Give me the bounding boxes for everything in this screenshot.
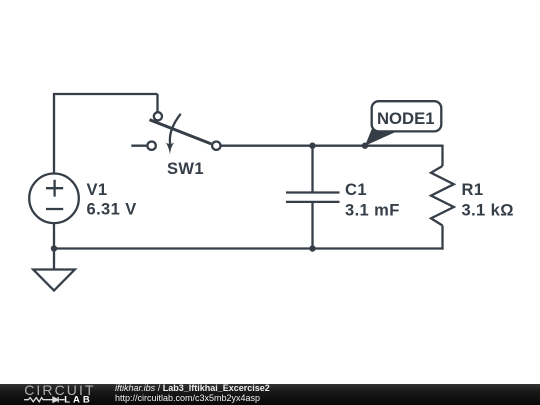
wire top rail <box>53 93 158 95</box>
svg-text:C1: C1 <box>345 181 367 199</box>
wire middle rail (switch to C1 node) <box>220 145 313 147</box>
svg-text:SW1: SW1 <box>167 160 204 178</box>
resistor R1 <box>431 166 454 226</box>
footer credit text <box>115 384 270 403</box>
svg-text:6.31 V: 6.31 V <box>87 201 137 219</box>
wire switch top stub <box>156 94 158 112</box>
wire V1 top lead <box>53 94 55 174</box>
wire R1 bottom lead <box>441 226 443 250</box>
switch SW1 <box>131 112 220 154</box>
svg-text:V1: V1 <box>87 181 108 199</box>
node NODE1 callout box <box>372 101 442 131</box>
wire ground stub <box>53 249 55 270</box>
wire C1 bottom lead <box>311 202 313 249</box>
wire C1 top lead <box>311 146 313 193</box>
svg-text:3.1 kΩ: 3.1 kΩ <box>462 202 514 220</box>
svg-text:NODE1: NODE1 <box>377 109 435 128</box>
ground <box>33 270 75 291</box>
node junction dot C1 bottom <box>309 245 315 251</box>
wire bottom rail (right) <box>313 247 444 249</box>
wire middle rail (C1 node to NODE1 dot) <box>313 145 366 147</box>
footer bar <box>0 384 540 405</box>
capacitor C1 <box>286 193 340 202</box>
node junction dot C1 top <box>309 143 315 149</box>
CircuitLab logo <box>23 383 103 405</box>
wire V1 bottom lead <box>53 223 55 248</box>
wire middle rail (NODE1 dot to corner) <box>365 145 443 147</box>
wire R1 top lead <box>441 145 443 166</box>
node junction dot at NODE1 <box>362 143 368 149</box>
svg-text:3.1 mF: 3.1 mF <box>345 202 400 220</box>
voltage source V1 <box>29 174 79 224</box>
node NODE1 callout tail <box>365 127 399 146</box>
svg-text:R1: R1 <box>462 181 484 199</box>
wire bottom rail (left) <box>54 247 313 249</box>
svg-text:LAB: LAB <box>64 395 93 405</box>
node junction dot ground <box>51 245 57 251</box>
